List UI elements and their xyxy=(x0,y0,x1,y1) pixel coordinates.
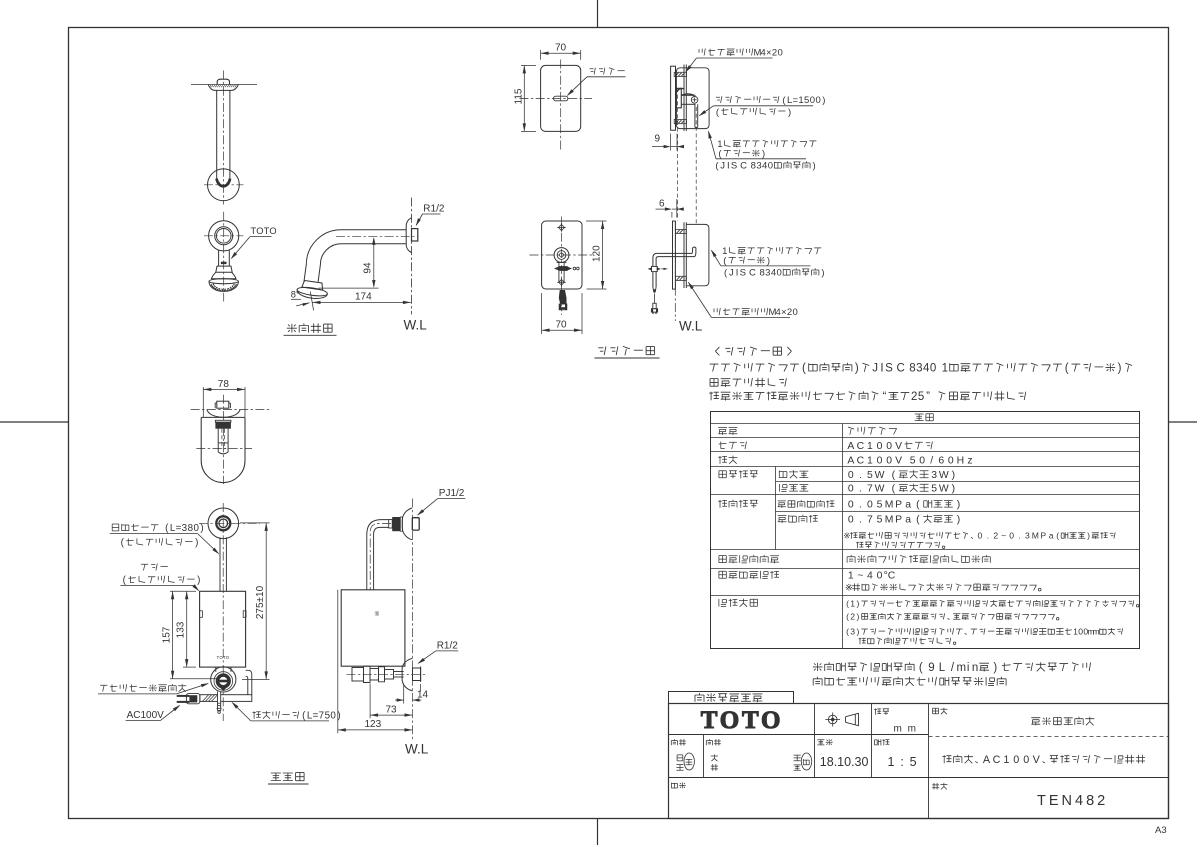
svg-text:A: A xyxy=(847,456,854,467)
svg-text:0: 0 xyxy=(930,363,936,375)
dimension 94 xyxy=(373,239,375,287)
svg-text:): ) xyxy=(957,500,960,511)
svg-text:0: 0 xyxy=(330,711,336,722)
svg-text:8°: 8° xyxy=(291,290,300,300)
sensor side view bottom: plate edge xyxy=(673,221,676,289)
svg-text:): ) xyxy=(1087,531,1090,541)
svg-text:C: C xyxy=(897,363,905,375)
drive top view: U-shaped cover outline xyxy=(201,416,245,418)
drive front: power cord bar xyxy=(200,695,252,702)
drive front: cord elbow from cover right xyxy=(246,670,252,694)
svg-text:115: 115 xyxy=(514,88,525,104)
svg-text:0: 0 xyxy=(877,441,883,452)
spec table row lines xyxy=(711,423,1140,425)
svg-text:A: A xyxy=(847,441,854,452)
svg-text:): ) xyxy=(195,538,198,549)
svg-text:m: m xyxy=(957,662,967,674)
spout top view: horizontal centerline xyxy=(204,184,244,186)
svg-text:W: W xyxy=(875,484,885,495)
sensor plate vertical centerline xyxy=(560,60,562,151)
label センサーコード(L=1500) xyxy=(716,95,825,106)
svg-text:C: C xyxy=(993,754,1001,766)
svg-text:W.L: W.L xyxy=(404,318,428,333)
svg-text:0: 0 xyxy=(848,515,854,526)
svg-text:C: C xyxy=(740,161,747,172)
rear view: bottom screw xyxy=(559,280,565,286)
spout top view: cap above ceiling xyxy=(217,79,229,84)
drive top view: crosshair at bolt xyxy=(191,408,270,410)
svg-text:L: L xyxy=(787,95,792,106)
drive front: hose down to cover xyxy=(219,537,221,591)
dimension 70 (top) xyxy=(540,50,542,60)
svg-text:): ) xyxy=(821,268,824,279)
spout side view: wall line W.L xyxy=(411,198,413,315)
spout front view: escutcheon circles xyxy=(209,221,239,251)
svg-text:(: ( xyxy=(802,363,806,375)
単位 cell xyxy=(874,709,889,715)
svg-text:94: 94 xyxy=(363,262,374,274)
drive front: vertical centerline xyxy=(222,503,224,721)
sensor side view top: switch box cover outline xyxy=(676,68,709,129)
dimension 133 xyxy=(186,591,188,667)
svg-text:5: 5 xyxy=(910,456,916,467)
svg-text:): ) xyxy=(197,575,200,586)
svg-text:): ) xyxy=(855,363,859,375)
svg-text:4: 4 xyxy=(771,268,776,279)
svg-text:n: n xyxy=(972,662,978,674)
spout top view: flange hatch xyxy=(210,85,239,87)
drive side: R1/2 wall flange xyxy=(402,658,412,691)
svg-text:/: / xyxy=(930,456,933,467)
svg-text:7: 7 xyxy=(867,515,873,526)
drive side: valve centerline xyxy=(347,673,426,675)
drive side: hose ferrule xyxy=(389,520,393,529)
row 給水圧力 xyxy=(718,500,758,508)
row 消費電力 xyxy=(719,471,758,479)
svg-text:0: 0 xyxy=(1023,754,1029,766)
svg-text:I: I xyxy=(736,268,739,279)
svg-text:R1/2: R1/2 xyxy=(437,641,459,652)
svg-text:7: 7 xyxy=(867,484,873,495)
svg-text:4: 4 xyxy=(762,161,767,172)
svg-text:I: I xyxy=(880,363,883,375)
label トラス小ねじM4×20 (bottom) xyxy=(714,307,798,318)
spout front view: head dome bottom xyxy=(209,282,238,292)
svg-text:1: 1 xyxy=(850,599,855,609)
svg-text:W.L: W.L xyxy=(679,319,703,334)
svg-text:133: 133 xyxy=(175,621,186,638)
sensor side view bottom: cord fastener xyxy=(648,267,652,270)
spout side view: wall escutcheon xyxy=(406,218,411,253)
label フィルター付止水栓 xyxy=(100,684,186,692)
spout front view: flared skirt xyxy=(211,272,236,279)
drive front: plug body (black) xyxy=(189,695,197,702)
svg-text:0: 0 xyxy=(193,523,199,534)
svg-text:P: P xyxy=(1040,531,1046,541)
sensor side view bottom: switch box xyxy=(686,224,709,285)
svg-text:P: P xyxy=(895,515,902,526)
svg-text:0: 0 xyxy=(877,456,883,467)
svg-text:P: P xyxy=(895,500,902,511)
note line 1 xyxy=(710,363,1132,375)
svg-text:): ) xyxy=(767,256,770,267)
svg-text:1: 1 xyxy=(848,571,854,582)
svg-text:(: ( xyxy=(1065,363,1069,375)
svg-text:0: 0 xyxy=(948,456,954,467)
svg-text:S: S xyxy=(731,161,737,172)
svg-text:3: 3 xyxy=(765,268,770,279)
dimension 174 xyxy=(313,301,411,303)
drive front: horizontal centerline xyxy=(199,522,260,524)
検図 cell xyxy=(706,739,721,745)
svg-text:0: 0 xyxy=(793,307,798,318)
sensor side view top: mounting screws xyxy=(674,72,686,76)
svg-text:): ) xyxy=(952,470,955,481)
drive front: plug prongs xyxy=(177,695,190,697)
svg-text:※: ※ xyxy=(843,531,850,541)
svg-text:V: V xyxy=(895,441,902,452)
svg-text:275±10: 275±10 xyxy=(255,585,266,619)
svg-text:(: ( xyxy=(892,470,896,481)
rear view: centerlines xyxy=(561,217,563,316)
table header 仕様 xyxy=(915,414,934,421)
svg-text:m m: m m xyxy=(894,724,918,735)
svg-text:70: 70 xyxy=(555,43,567,54)
drive front: valve black ring with slot xyxy=(216,673,231,688)
label 1ヶ用スイッチボックス (top) xyxy=(717,139,816,150)
svg-text:.: . xyxy=(859,515,862,526)
spec table outer border xyxy=(711,412,1140,649)
section label センサー部 xyxy=(598,346,654,355)
title block column lines xyxy=(814,704,816,778)
sensor side view top: sensor body cylinder xyxy=(681,94,695,96)
備考 cell xyxy=(672,783,686,789)
svg-text:.: . xyxy=(987,531,989,541)
label 電源コード(L=750) xyxy=(253,711,341,722)
svg-text:2: 2 xyxy=(850,612,855,622)
svg-text:): ) xyxy=(788,107,791,118)
dimension 275±10 xyxy=(240,522,270,524)
spec table sub column divider xyxy=(775,467,777,550)
rear view: sensor eye circles xyxy=(554,248,569,263)
svg-text:): ) xyxy=(762,149,765,160)
drive side: cover box xyxy=(341,590,405,666)
svg-text:0: 0 xyxy=(810,95,815,106)
sensor side view bottom: wall lines xyxy=(683,222,685,288)
spout top view: pipe end joint (dark arcs) xyxy=(217,179,230,187)
svg-text:(: ( xyxy=(846,612,849,622)
svg-text:): ) xyxy=(856,612,859,622)
sensor side view bottom: W.L centerline xyxy=(674,222,676,321)
drive front: wall escutcheon circles xyxy=(208,508,239,539)
note line 2 xyxy=(710,378,786,387)
svg-text:C: C xyxy=(749,268,756,279)
svg-text:1 : 5: 1 : 5 xyxy=(888,755,918,769)
svg-text:M: M xyxy=(1032,531,1039,541)
svg-text:.: . xyxy=(859,500,862,511)
svg-text:78: 78 xyxy=(218,379,230,390)
svg-text:A3: A3 xyxy=(1155,825,1167,836)
svg-text:3: 3 xyxy=(1025,531,1030,541)
174 left extension (8 deg tilted) xyxy=(310,292,313,311)
svg-text:4: 4 xyxy=(867,571,873,582)
svg-text:5: 5 xyxy=(804,95,809,106)
svg-text:.: . xyxy=(1018,531,1020,541)
dimension 115 (left) xyxy=(521,64,536,66)
rear view: stem below sensor xyxy=(558,262,560,283)
svg-text:0: 0 xyxy=(777,268,782,279)
svg-text:2: 2 xyxy=(993,531,998,541)
note ※快適 xyxy=(843,531,1115,541)
svg-text:×: × xyxy=(766,48,772,59)
drive side: W.L wall centerline xyxy=(412,499,414,741)
row タイプ xyxy=(719,442,747,450)
label 1ヶ用スイッチボックス (bottom) xyxy=(722,246,821,257)
svg-text:1: 1 xyxy=(942,363,948,375)
svg-text:): ) xyxy=(957,515,960,526)
svg-text:C: C xyxy=(857,456,865,467)
spout top view: ceiling line xyxy=(191,84,257,86)
svg-text:(: ( xyxy=(916,515,920,526)
title block row lines xyxy=(669,734,929,736)
svg-text:3: 3 xyxy=(756,161,761,172)
sensor plate horizontal centerline xyxy=(520,97,593,99)
svg-text:1: 1 xyxy=(867,441,873,452)
spout top view: vertical centerline xyxy=(222,71,224,205)
spec table sub row line (最低/最高水圧) xyxy=(776,511,1140,513)
flow note line 1 xyxy=(813,662,1091,674)
svg-text:3: 3 xyxy=(931,470,937,481)
svg-text:R1/2: R1/2 xyxy=(423,204,445,215)
rear view: top screw cross xyxy=(559,225,565,231)
svg-text:~: ~ xyxy=(857,571,863,582)
svg-text:): ) xyxy=(1118,363,1122,375)
svg-text:W: W xyxy=(939,484,949,495)
svg-text:“: “ xyxy=(882,391,886,403)
dimension 14 xyxy=(403,684,405,704)
drive front: plug shell xyxy=(186,694,199,704)
svg-text:5: 5 xyxy=(877,500,883,511)
svg-text:): ) xyxy=(813,161,816,172)
drive front: stop valve circle xyxy=(211,667,236,692)
row 特記事項 xyxy=(719,599,758,607)
svg-text:(: ( xyxy=(846,627,849,637)
svg-text:J: J xyxy=(872,363,878,375)
dimension 120 (right) xyxy=(586,220,607,222)
drive front: cover box xyxy=(200,591,246,667)
spout top view: pipe body xyxy=(216,90,218,180)
svg-text:): ) xyxy=(952,484,955,495)
sensor plate front view xyxy=(541,65,581,131)
svg-text:): ) xyxy=(856,627,859,637)
svg-text:M: M xyxy=(885,500,894,511)
section label 吐水口部 xyxy=(287,323,332,333)
svg-text:0: 0 xyxy=(768,161,773,172)
svg-text:(: ( xyxy=(919,662,923,674)
日付 cell xyxy=(817,739,832,745)
svg-text:TOTO: TOTO xyxy=(701,707,784,734)
svg-text:0: 0 xyxy=(778,48,783,59)
note line 3 xyxy=(709,391,1026,403)
svg-text:a: a xyxy=(1049,531,1054,541)
label 連結ホース (L=380) xyxy=(112,523,203,534)
svg-text:120: 120 xyxy=(592,245,603,262)
drive side: hose centerline xyxy=(370,524,391,590)
drive top view: crosshair at tube xyxy=(196,448,252,450)
spout front view: collar band xyxy=(216,266,232,272)
svg-text:0: 0 xyxy=(919,456,925,467)
sensor side view top: sensor cord going down xyxy=(694,104,696,127)
spout front view: neck xyxy=(218,250,220,266)
svg-text:AC100V: AC100V xyxy=(127,710,165,721)
dashed subtitle divider xyxy=(929,736,1169,738)
rear view: wing fastener xyxy=(554,267,559,271)
drive top view: inner tube xyxy=(217,429,219,452)
spec table sub row line (待機時/作動時) xyxy=(776,481,1140,483)
flow note line 2 xyxy=(813,677,1006,686)
spout side view: head collar and rim (tilted 8 deg) xyxy=(296,280,329,301)
svg-text:): ) xyxy=(993,662,997,674)
svg-text:): ) xyxy=(856,599,859,609)
svg-text:70: 70 xyxy=(556,320,568,331)
svg-text:(: ( xyxy=(916,500,920,511)
svg-text:0: 0 xyxy=(886,441,892,452)
row 使用可能水質 xyxy=(719,555,779,563)
svg-text:2: 2 xyxy=(911,391,917,403)
spout front view: horizontal centerline xyxy=(204,235,244,237)
svg-text:5: 5 xyxy=(931,484,937,495)
svg-text:(: ( xyxy=(892,484,896,495)
svg-text:C: C xyxy=(857,441,865,452)
spec table value column divider xyxy=(842,424,844,649)
section label 駆動部 xyxy=(271,773,304,781)
svg-text:TOTO: TOTO xyxy=(217,655,230,660)
dimension 73 xyxy=(369,684,371,719)
svg-text:”: ” xyxy=(926,391,930,403)
svg-text:8: 8 xyxy=(751,161,756,172)
rear view: cord connector below xyxy=(559,290,567,304)
drive front: drain stem below valve xyxy=(218,692,221,708)
svg-text:1: 1 xyxy=(798,95,803,106)
svg-text:L: L xyxy=(939,662,946,674)
drive side: hose connector (dark) xyxy=(392,517,400,531)
svg-text:m: m xyxy=(1093,627,1100,637)
svg-text:5: 5 xyxy=(918,391,924,403)
label センサー with leader xyxy=(590,68,625,75)
svg-text:TOTO: TOTO xyxy=(251,226,277,236)
svg-text:a: a xyxy=(905,515,911,526)
svg-text:5: 5 xyxy=(877,515,883,526)
svg-text:~: ~ xyxy=(1001,531,1006,541)
row 使用環境温度 xyxy=(719,571,779,579)
svg-text:J: J xyxy=(729,268,734,279)
sensor side view bottom: screws xyxy=(675,229,686,233)
notes header 〈センサー部〉 xyxy=(715,347,791,356)
svg-text:18.10.30: 18.10.30 xyxy=(820,755,869,769)
svg-text:0: 0 xyxy=(848,484,854,495)
svg-text:W: W xyxy=(939,470,949,481)
dimension 123 xyxy=(337,590,339,733)
svg-text:9: 9 xyxy=(655,134,661,145)
row 用途 xyxy=(718,427,737,435)
right center tick xyxy=(1169,421,1198,423)
svg-text:8: 8 xyxy=(909,363,915,375)
title block outer xyxy=(669,704,1169,819)
svg-text:4: 4 xyxy=(775,307,780,318)
spout side view: pipe centerline xyxy=(336,236,419,238)
svg-text:3: 3 xyxy=(916,363,922,375)
subtitle 単水栓、AC100V、光電センサー埋込形 xyxy=(942,754,1145,766)
svg-text:J: J xyxy=(720,161,725,172)
sensor side view top: centerlines down to lower view xyxy=(677,88,679,221)
sensor side view bottom: cord through wall xyxy=(657,248,692,254)
94 extension line at head tip level xyxy=(319,287,379,289)
sensor side view top: plate edge xyxy=(671,66,676,130)
svg-text:14: 14 xyxy=(417,689,429,700)
svg-text:6: 6 xyxy=(659,199,665,210)
sensor side view top: sensor bracket xyxy=(676,88,681,108)
spout front view: vertical centerline xyxy=(223,212,225,302)
svg-text:): ) xyxy=(822,95,825,106)
spout top view: aerator circle (seen from above) xyxy=(208,169,240,201)
svg-text:0: 0 xyxy=(886,456,892,467)
top center tick xyxy=(597,0,599,28)
svg-text:0: 0 xyxy=(848,500,854,511)
spout side view: bend outer xyxy=(304,230,341,282)
row 電源 xyxy=(718,456,737,464)
sensor side view bottom: cord lower and connector xyxy=(652,272,654,287)
svg-text:7: 7 xyxy=(319,711,324,722)
drive top view: hex bolt xyxy=(217,401,229,408)
svg-text:0: 0 xyxy=(815,95,820,106)
svg-text:i: i xyxy=(967,662,970,674)
svg-text:S: S xyxy=(740,268,746,279)
尺度 cell xyxy=(874,739,889,745)
drive top view: black hose collar xyxy=(215,420,231,422)
svg-text:S: S xyxy=(885,363,893,375)
svg-text:123: 123 xyxy=(365,719,382,730)
spout top view: flange dome below ceiling xyxy=(208,85,238,91)
drive side: hose curve down to cover xyxy=(367,520,389,590)
drive side: PJ1/2 nipple xyxy=(412,518,419,530)
svg-text:73: 73 xyxy=(386,704,398,715)
水道法適合品 box xyxy=(669,692,794,704)
svg-text:(: ( xyxy=(1056,531,1059,541)
label カバー xyxy=(141,563,168,570)
sensor plate rear view xyxy=(542,221,582,289)
bottom center tick xyxy=(597,819,599,846)
svg-text:※: ※ xyxy=(845,583,853,593)
svg-text:9: 9 xyxy=(928,662,934,674)
図番 cell xyxy=(932,783,947,790)
label トラス小ねじM4×20 (top) xyxy=(699,48,783,59)
drive side: R1/2 hex nipple xyxy=(413,668,421,681)
製図 cell xyxy=(671,739,686,745)
drive top view: vertical centerline xyxy=(222,395,224,484)
spout side view: pipe bottom line xyxy=(341,243,406,245)
svg-text:W.L: W.L xyxy=(405,742,429,757)
svg-text:): ) xyxy=(200,523,203,534)
sensor side view top: wall lines xyxy=(683,65,685,132)
svg-text:0: 0 xyxy=(867,500,873,511)
svg-text:H: H xyxy=(957,456,965,467)
svg-text:×: × xyxy=(781,307,787,318)
spout side view: bend inner xyxy=(318,244,341,282)
spout side view: pipe top line xyxy=(341,229,406,231)
svg-text:.: . xyxy=(859,470,862,481)
svg-text:0: 0 xyxy=(1009,531,1014,541)
svg-text:4: 4 xyxy=(760,48,765,59)
